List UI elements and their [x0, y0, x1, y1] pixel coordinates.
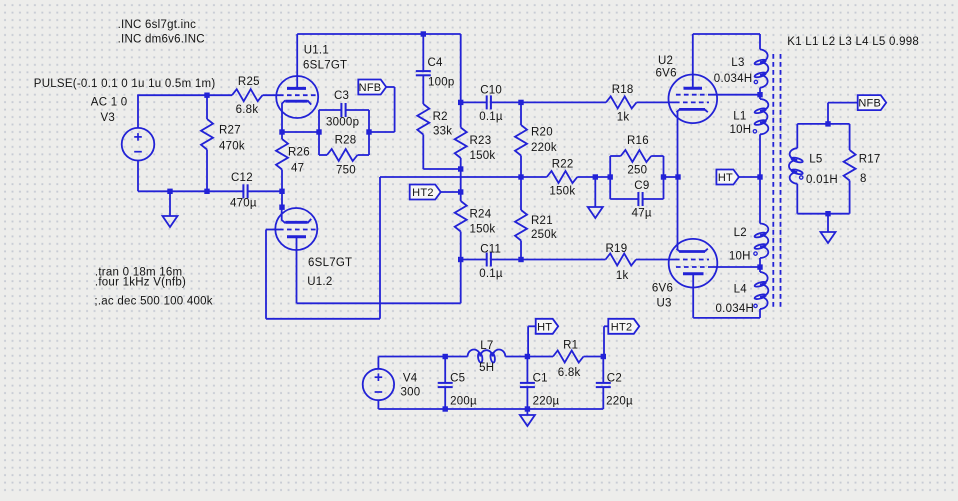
svg-text:R17: R17	[859, 154, 881, 166]
value 470µ of C12	[230, 198, 257, 210]
label R28	[335, 134, 357, 146]
svg-text:C10: C10	[480, 85, 502, 97]
svg-text:U1.1: U1.1	[304, 44, 329, 56]
label R17	[859, 154, 881, 166]
designator U2	[658, 55, 673, 67]
label R20	[531, 126, 553, 138]
resistor R17	[844, 150, 856, 181]
type 6SL7GT of U1.1	[303, 59, 347, 71]
svg-text:10H: 10H	[730, 124, 752, 136]
capacitor C10	[487, 95, 491, 109]
value 200µ of C5	[450, 395, 477, 407]
spice directive .INC dm6v6.INC	[118, 34, 205, 46]
resistor R25	[232, 89, 263, 101]
svg-text:33k: 33k	[433, 126, 452, 138]
node junction C1 bottom	[525, 406, 530, 411]
wire R26 top lead	[281, 132, 283, 139]
wire C3 branch left	[319, 109, 341, 111]
svg-text:6V6: 6V6	[652, 283, 673, 295]
resistor R2	[417, 104, 429, 135]
wire PSU ground stem	[526, 409, 528, 415]
wire splitter rail left	[380, 176, 547, 178]
svg-text:100p: 100p	[428, 76, 455, 88]
pentode U2 6V6	[669, 34, 718, 177]
node junction C11 left	[458, 257, 463, 262]
svg-text:R25: R25	[238, 76, 260, 88]
designator U1.2	[307, 276, 332, 288]
node junction ground mid	[593, 174, 598, 179]
capacitor C4	[416, 71, 431, 75]
value 6.8k of R25	[236, 104, 259, 116]
phase dot L4	[754, 304, 757, 307]
wire C1 bottom lead	[526, 387, 528, 409]
inductor L3	[754, 49, 768, 87]
node junction C4 top	[421, 31, 426, 36]
capacitor C11	[487, 253, 491, 267]
label C5	[450, 373, 465, 385]
capacitor C5	[438, 383, 453, 387]
svg-text:3000p: 3000p	[326, 117, 359, 129]
value 220µ of C1	[533, 395, 560, 407]
value 3000p of C3	[326, 117, 359, 129]
net flag HT2 mid	[410, 185, 441, 200]
svg-text:1k: 1k	[617, 111, 630, 123]
node junction box right	[661, 174, 666, 179]
value 0.1µ of C11	[479, 268, 503, 280]
resistor R24	[455, 201, 467, 232]
spice directive K1 coupling	[787, 36, 919, 48]
resistor R27	[201, 119, 213, 150]
ground symbol secondary	[821, 232, 836, 243]
resistor R22	[547, 171, 578, 183]
node junction box left	[608, 174, 613, 179]
node junction input/R27	[204, 93, 209, 98]
ground symbol PSU	[520, 415, 535, 426]
type 6V6 of U3	[652, 283, 673, 295]
svg-text:220µ: 220µ	[606, 395, 633, 407]
wire R16 branch right	[651, 155, 663, 157]
svg-text:R2: R2	[433, 111, 448, 123]
svg-text:0.034H: 0.034H	[714, 73, 753, 85]
value label PULSE of V3	[34, 78, 216, 90]
wire R2 bottom	[423, 135, 460, 170]
label L7	[480, 340, 493, 352]
svg-text:47: 47	[291, 162, 304, 174]
svg-text:HT2: HT2	[412, 187, 434, 199]
designator V4	[403, 373, 418, 385]
resistor R20	[515, 125, 527, 156]
capacitor C1	[520, 383, 535, 387]
wire C11 right	[491, 259, 521, 261]
phase dot L1	[753, 130, 756, 133]
wire R20 bottom lead	[520, 156, 522, 178]
wire secondary top	[797, 123, 849, 125]
wire HT2 flag stub	[441, 191, 461, 193]
label R27	[219, 124, 241, 136]
label C9	[634, 180, 649, 192]
capacitor C3	[341, 103, 345, 117]
value 33k of R2	[433, 126, 452, 138]
wire NFB to secondary	[828, 103, 858, 124]
svg-text:0.1µ: 0.1µ	[479, 111, 503, 123]
svg-text:R27: R27	[219, 124, 241, 136]
wire R28 branch right	[358, 154, 370, 156]
node junction cathode row left	[279, 129, 284, 134]
label R21	[531, 215, 553, 227]
svg-text:C2: C2	[607, 373, 622, 385]
svg-text:U3: U3	[657, 298, 672, 310]
wire U3 screen to UL tap	[708, 266, 760, 268]
svg-text:R16: R16	[627, 135, 649, 147]
svg-text:0.1µ: 0.1µ	[479, 268, 503, 280]
label R26	[288, 146, 310, 158]
wire C2 bottom lead	[602, 387, 604, 409]
label L2	[734, 227, 747, 239]
node junction C3R28 right	[366, 129, 371, 134]
svg-text:10H: 10H	[729, 251, 751, 263]
wire C4 top lead	[422, 34, 424, 71]
triode U1.2 6SL7GT	[275, 207, 317, 303]
svg-text:R20: R20	[531, 126, 553, 138]
svg-text:L7: L7	[480, 340, 493, 352]
inductor L7	[468, 349, 506, 362]
wire C5 top lead	[444, 357, 446, 383]
node junction secondary top	[825, 121, 830, 126]
wire HT2 psu stub	[604, 326, 608, 356]
svg-text:8: 8	[860, 173, 867, 185]
value 0.1µ of C10	[479, 111, 503, 123]
wire L2 bottom to tap	[759, 258, 761, 272]
svg-text:.four 1kHz V(nfb): .four 1kHz V(nfb)	[95, 276, 186, 288]
label R16	[627, 135, 649, 147]
wire R17 top lead	[849, 124, 851, 150]
capacitor C9	[638, 192, 642, 206]
node junction C1 top	[525, 354, 530, 359]
type 6SL7GT of U1.2	[308, 257, 352, 269]
type 6V6 of U2	[656, 67, 677, 79]
label R1	[563, 340, 578, 352]
svg-text:220µ: 220µ	[533, 395, 560, 407]
svg-text:6.8k: 6.8k	[236, 104, 259, 116]
net flag HT2 psu	[608, 319, 639, 334]
wire C10node to R18	[521, 101, 606, 103]
node junction HT tap	[757, 174, 762, 179]
value 10H of L1	[730, 124, 752, 136]
spice directive .ac (commented)	[94, 296, 212, 308]
wire L5 top lead	[796, 124, 798, 148]
value 470k of R27	[219, 140, 245, 152]
designator U1.1	[304, 44, 329, 56]
wire R26 bottom lead	[281, 170, 283, 208]
svg-text:R26: R26	[288, 146, 310, 158]
svg-text:R21: R21	[531, 215, 553, 227]
svg-text:470µ: 470µ	[230, 198, 257, 210]
wire C5 bottom lead	[444, 387, 446, 409]
value 6.8k of R1	[558, 367, 581, 379]
value 250 of R16	[627, 165, 647, 177]
wire V3 bottom lead	[137, 160, 139, 191]
wire R1 to C2	[584, 356, 604, 358]
wire PSU top rail left	[378, 356, 467, 358]
value 47µ of C9	[632, 208, 652, 220]
node junction C5 bottom	[443, 406, 448, 411]
svg-text:6.8k: 6.8k	[558, 367, 581, 379]
wire R21 top lead	[520, 177, 522, 210]
svg-text:L2: L2	[734, 227, 747, 239]
label L4	[734, 283, 748, 295]
wire box right vertical	[663, 156, 665, 199]
svg-text:AC 1 0: AC 1 0	[91, 97, 128, 109]
resistor R18	[606, 96, 637, 108]
label L5	[809, 154, 822, 166]
designator V3	[101, 112, 116, 124]
ground symbol middle	[588, 207, 603, 218]
wire R27 bottom lead	[206, 150, 208, 192]
label C10	[480, 85, 502, 97]
node junction secondary ground	[825, 211, 830, 216]
wire U1.1 cathode row	[282, 131, 319, 133]
label C12	[231, 172, 253, 184]
wire box left vertical	[609, 156, 611, 199]
wire bottom rail left	[138, 190, 243, 192]
svg-text:C1: C1	[533, 373, 548, 385]
value label AC 1 0 of V3	[91, 97, 128, 109]
node junction UL tap upper	[757, 92, 762, 97]
transformer core line 1	[772, 54, 774, 308]
value 1k of R19	[616, 270, 629, 282]
label R18	[612, 84, 634, 96]
svg-text:U2: U2	[658, 55, 673, 67]
node junction C11 right	[518, 257, 523, 262]
svg-text:L5: L5	[809, 154, 822, 166]
value 250k of R21	[531, 229, 557, 241]
svg-text:C5: C5	[450, 373, 465, 385]
label C3	[334, 90, 349, 102]
net flag NFB left	[358, 80, 386, 95]
svg-text:5H: 5H	[479, 362, 494, 374]
wire C11 left	[461, 259, 487, 261]
label C1	[533, 373, 548, 385]
value 0.01H of L5	[806, 174, 838, 186]
svg-text:NFB: NFB	[858, 98, 881, 110]
svg-text:R24: R24	[470, 209, 492, 221]
phase dot L3	[754, 80, 757, 83]
spice directive .INC 6sl7gt.inc	[118, 19, 197, 31]
wire U2 screen to UL tap	[708, 94, 760, 96]
svg-text:47µ: 47µ	[632, 208, 652, 220]
svg-text:HT: HT	[537, 321, 552, 333]
value 750 of R28	[336, 164, 356, 176]
node junction C10 right	[518, 100, 523, 105]
svg-text:1k: 1k	[616, 270, 629, 282]
node junction C3R28 left	[316, 129, 321, 134]
svg-text:L3: L3	[731, 57, 744, 69]
svg-text:150k: 150k	[549, 186, 575, 198]
svg-text:0.034H: 0.034H	[716, 303, 755, 315]
wire C3R28 left vertical	[318, 110, 320, 155]
wire C3 branch right	[346, 109, 369, 111]
wire C1 top lead	[526, 357, 528, 383]
wire R19 to U3 grid	[636, 259, 675, 261]
label L3	[731, 57, 744, 69]
svg-text:750: 750	[336, 164, 356, 176]
svg-text:470k: 470k	[219, 140, 245, 152]
wire C9 branch right	[643, 198, 664, 200]
svg-text:V4: V4	[403, 373, 418, 385]
capacitor C12	[243, 184, 247, 198]
label R24	[470, 209, 492, 221]
wire U1.2 plate to C11 node	[297, 260, 461, 304]
wire V4 top lead	[377, 357, 379, 370]
inductor L4	[754, 272, 768, 309]
wire R20 top lead	[520, 102, 522, 125]
value 47 of R26	[291, 162, 304, 174]
inductor L1	[754, 99, 768, 134]
wire R21 bottom lead	[520, 241, 522, 260]
svg-text:HT2: HT2	[611, 321, 633, 333]
wire rail R22 to box	[577, 176, 610, 178]
node junction C12/R26/cathode	[279, 189, 284, 194]
node junction R27 bottom	[204, 189, 209, 194]
value 100p of C4	[428, 76, 455, 88]
node junction ground tap	[167, 189, 172, 194]
label R2	[433, 111, 448, 123]
resistor R19	[606, 254, 637, 266]
value 150k of R24	[470, 224, 496, 236]
svg-text:.INC dm6v6.INC: .INC dm6v6.INC	[118, 34, 205, 46]
svg-text:0.01H: 0.01H	[806, 174, 838, 186]
inductor L5	[789, 148, 803, 184]
svg-text:300: 300	[401, 387, 421, 399]
svg-text:C4: C4	[428, 57, 444, 69]
triode U1.1 6SL7GT	[276, 34, 318, 132]
svg-text:L1: L1	[733, 111, 746, 123]
node junction R2/R23 column	[458, 166, 463, 171]
wire C9 branch left	[610, 198, 638, 200]
spice directive .four	[95, 276, 186, 288]
value 0.034H of L4	[716, 303, 755, 315]
label L1	[733, 111, 746, 123]
phase dot L2	[754, 252, 757, 255]
wire C10 left	[461, 101, 487, 103]
phase dot L5	[800, 176, 803, 179]
wire V3 top lead	[137, 95, 139, 128]
wire R23 top lead	[460, 102, 462, 127]
wire secondary bottom	[797, 213, 849, 215]
resistor R28	[327, 149, 358, 161]
svg-text:NFB: NFB	[359, 82, 382, 94]
node junction C10 left	[458, 100, 463, 105]
node junction C5 top	[443, 354, 448, 359]
inductor L2	[754, 224, 768, 259]
svg-text:C3: C3	[334, 90, 349, 102]
node junction C2 top	[601, 354, 606, 359]
value 220µ of C2	[606, 395, 633, 407]
value 0.034H of L3	[714, 73, 753, 85]
wire R17 bottom lead	[849, 181, 851, 214]
wire R25 to U1.1 grid	[263, 94, 280, 96]
value 220k of R20	[531, 142, 557, 154]
capacitor C2	[596, 383, 611, 387]
wire C3R28 right vertical	[368, 110, 370, 155]
resistor R16	[621, 150, 652, 162]
wire rail box to cathodes	[664, 176, 679, 178]
transformer core line 2	[780, 54, 782, 308]
wire ground stem	[169, 191, 171, 216]
wire V4 bottom lead	[377, 400, 379, 409]
label R23	[470, 135, 492, 147]
wire mid ground stem	[594, 177, 596, 207]
svg-text:220k: 220k	[531, 142, 557, 154]
value 10H of L2	[729, 251, 751, 263]
wire C10 right	[491, 101, 521, 103]
node junction rail/cathodes	[675, 174, 680, 179]
svg-text:V3: V3	[101, 112, 116, 124]
wire L7 to R1	[505, 356, 553, 358]
net flag HT psu	[536, 319, 559, 334]
value 300 of V4	[401, 387, 421, 399]
svg-text:K1 L1 L2 L3 L4 L5 0.998: K1 L1 L2 L3 L4 L5 0.998	[787, 36, 919, 48]
svg-text:R28: R28	[335, 134, 357, 146]
value 1k of R18	[617, 111, 630, 123]
svg-text:6SL7GT: 6SL7GT	[308, 257, 352, 269]
label C4	[428, 57, 444, 69]
voltage source V4	[363, 369, 394, 400]
label C2	[607, 373, 622, 385]
value 8 of R17	[860, 173, 867, 185]
wire secondary ground stem	[827, 214, 829, 232]
wire HT psu stub	[528, 326, 536, 356]
label R19	[606, 243, 628, 255]
pentode U3 6V6	[669, 177, 718, 288]
wire R28 branch left	[319, 154, 327, 156]
wire plate top rail	[297, 34, 461, 102]
wire U2 plate top rail	[693, 34, 760, 49]
net flag HT transformer	[716, 170, 739, 185]
svg-text:150k: 150k	[470, 224, 496, 236]
wire R24 bottom lead	[460, 232, 462, 260]
svg-text:C9: C9	[634, 180, 649, 192]
node junction R20/R21/rail	[518, 174, 523, 179]
wire C2 top lead	[602, 357, 604, 383]
svg-text:C12: C12	[231, 172, 253, 184]
value 5H of L7	[479, 362, 494, 374]
label C11	[480, 244, 501, 256]
wire L1 to HT node	[759, 134, 761, 223]
svg-text:U1.2: U1.2	[307, 276, 332, 288]
svg-text:R23: R23	[470, 135, 492, 147]
svg-text:250k: 250k	[531, 229, 557, 241]
label R25	[238, 76, 260, 88]
resistor R26	[276, 139, 288, 170]
ground symbol left	[163, 216, 178, 227]
wire PSU bottom rail	[378, 408, 603, 410]
svg-text:R19: R19	[606, 243, 628, 255]
wire R27 top lead	[206, 95, 208, 119]
svg-text:250: 250	[627, 165, 647, 177]
svg-text:R1: R1	[563, 340, 578, 352]
wire L3 bottom to tap	[759, 88, 761, 99]
wire C11 to R19	[521, 259, 606, 261]
wire input top	[137, 94, 232, 96]
svg-text:R22: R22	[552, 158, 574, 170]
svg-text:;.ac dec 500 100 400k: ;.ac dec 500 100 400k	[94, 296, 212, 308]
voltage source V3	[122, 128, 155, 161]
wire NFB tap	[369, 87, 395, 132]
svg-text:PULSE(-0.1 0.1 0 1u 1u 0.5m 1m: PULSE(-0.1 0.1 0 1u 1u 0.5m 1m)	[34, 78, 216, 90]
resistor R21	[515, 210, 527, 241]
wire R18 to U2 grid	[637, 101, 676, 103]
